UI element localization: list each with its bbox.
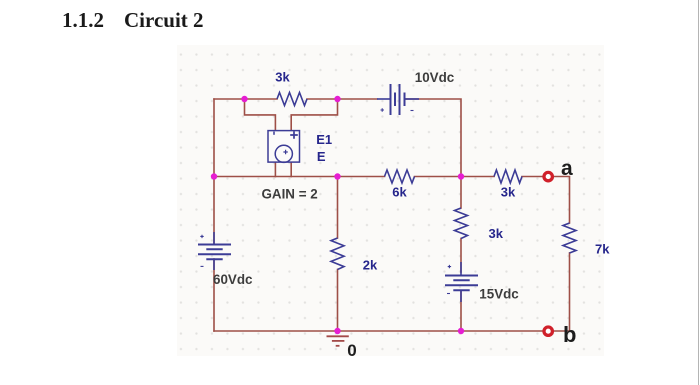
svg-text:E1: E1 <box>316 132 332 147</box>
svg-text:0: 0 <box>347 341 356 360</box>
svg-text:E: E <box>317 149 326 164</box>
svg-text:2k: 2k <box>363 258 378 273</box>
svg-text:3k: 3k <box>501 185 516 200</box>
svg-text:60Vdc: 60Vdc <box>213 272 253 287</box>
svg-text:b: b <box>563 322 576 347</box>
svg-text:7k: 7k <box>595 242 610 257</box>
svg-text:3k: 3k <box>275 70 290 85</box>
svg-text:10Vdc: 10Vdc <box>415 70 455 85</box>
svg-text:3k: 3k <box>489 226 504 241</box>
svg-text:15Vdc: 15Vdc <box>479 286 519 301</box>
svg-text:a: a <box>561 157 573 180</box>
svg-text:GAIN = 2: GAIN = 2 <box>262 186 318 201</box>
svg-text:6k: 6k <box>392 185 407 200</box>
